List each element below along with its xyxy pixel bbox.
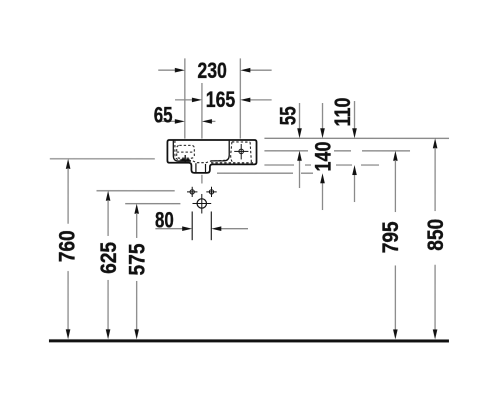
soap pocket shelf line (dashed) bbox=[177, 151, 195, 153]
tap platform hidden outline (dashed) bbox=[231, 142, 252, 163]
dimension 165 arrows bbox=[175, 98, 272, 103]
label 575 bbox=[124, 243, 149, 275]
svg-text:575: 575 bbox=[124, 243, 149, 275]
dimension 110 vertical bbox=[352, 101, 357, 202]
dimension 140 vertical bbox=[320, 103, 325, 210]
extension line center x=201.9 bbox=[201, 83, 203, 139]
floor line bbox=[49, 339, 449, 342]
dimension 625 vertical bbox=[106, 191, 111, 340]
dimension 760 vertical bbox=[66, 159, 71, 340]
overflow slot mark bbox=[184, 155, 186, 163]
svg-text:850: 850 bbox=[423, 219, 448, 251]
drain hole bbox=[192, 194, 211, 214]
centerline stub below trap bbox=[201, 175, 203, 184]
svg-text:165: 165 bbox=[206, 87, 235, 112]
level line 140 below rim (trap bottom, right) bbox=[217, 172, 313, 174]
basin interior hidden edge (dashed) bbox=[175, 141, 228, 163]
level line rim top 850 (right) bbox=[264, 137, 449, 139]
svg-text:760: 760 bbox=[54, 230, 79, 262]
svg-text:625: 625 bbox=[96, 242, 121, 274]
soap pocket (dashed rounded rect) bbox=[177, 145, 195, 158]
label 110 bbox=[330, 98, 355, 127]
label 140 bbox=[310, 142, 335, 172]
fixing hole left bbox=[187, 187, 197, 197]
level line 575 (drain center, left) bbox=[125, 203, 180, 205]
dimension 575 vertical bbox=[134, 204, 139, 340]
dimension 850 vertical bbox=[433, 138, 438, 339]
dimension 55 vertical bbox=[297, 103, 302, 188]
level line 760 (basin interior bottom, left) bbox=[50, 158, 155, 160]
label 760 bbox=[54, 230, 79, 262]
label 795 bbox=[378, 221, 403, 253]
level line 110 below rim (dashed, right) bbox=[264, 164, 379, 166]
dimension 65 arrows bbox=[158, 119, 216, 124]
dimension 80 arrows bbox=[155, 226, 248, 231]
label 625 bbox=[96, 242, 121, 274]
dimension 795 vertical bbox=[393, 151, 398, 340]
svg-text:65: 65 bbox=[154, 103, 173, 128]
basin interior visible edge (solid) bbox=[173, 141, 229, 162]
svg-text:795: 795 bbox=[378, 221, 403, 253]
fixing hole right bbox=[206, 187, 216, 197]
level line 625 (fixing holes, left) bbox=[97, 190, 175, 192]
extension line faucet x=240.3 bbox=[239, 58, 241, 138]
faucet hole marker bbox=[234, 144, 248, 159]
extension line left tap edge x=184.8 bbox=[184, 58, 186, 138]
washbasin outer profile bbox=[167, 140, 256, 173]
svg-text:55: 55 bbox=[275, 106, 300, 125]
svg-text:80: 80 bbox=[155, 207, 174, 232]
tap platform bottom hidden line (dashed) bbox=[211, 162, 255, 164]
svg-text:230: 230 bbox=[197, 58, 226, 83]
label 850 bbox=[423, 219, 448, 251]
level line 795 / 55 below rim (dashed, right) bbox=[264, 150, 410, 152]
svg-text:110: 110 bbox=[330, 98, 355, 127]
dimension 230 arrows bbox=[158, 68, 271, 73]
dimension 80 extension lines bbox=[191, 211, 193, 240]
label 55 bbox=[275, 106, 300, 125]
svg-text:140: 140 bbox=[310, 142, 335, 172]
trap inner pipe lines bbox=[195, 163, 197, 172]
